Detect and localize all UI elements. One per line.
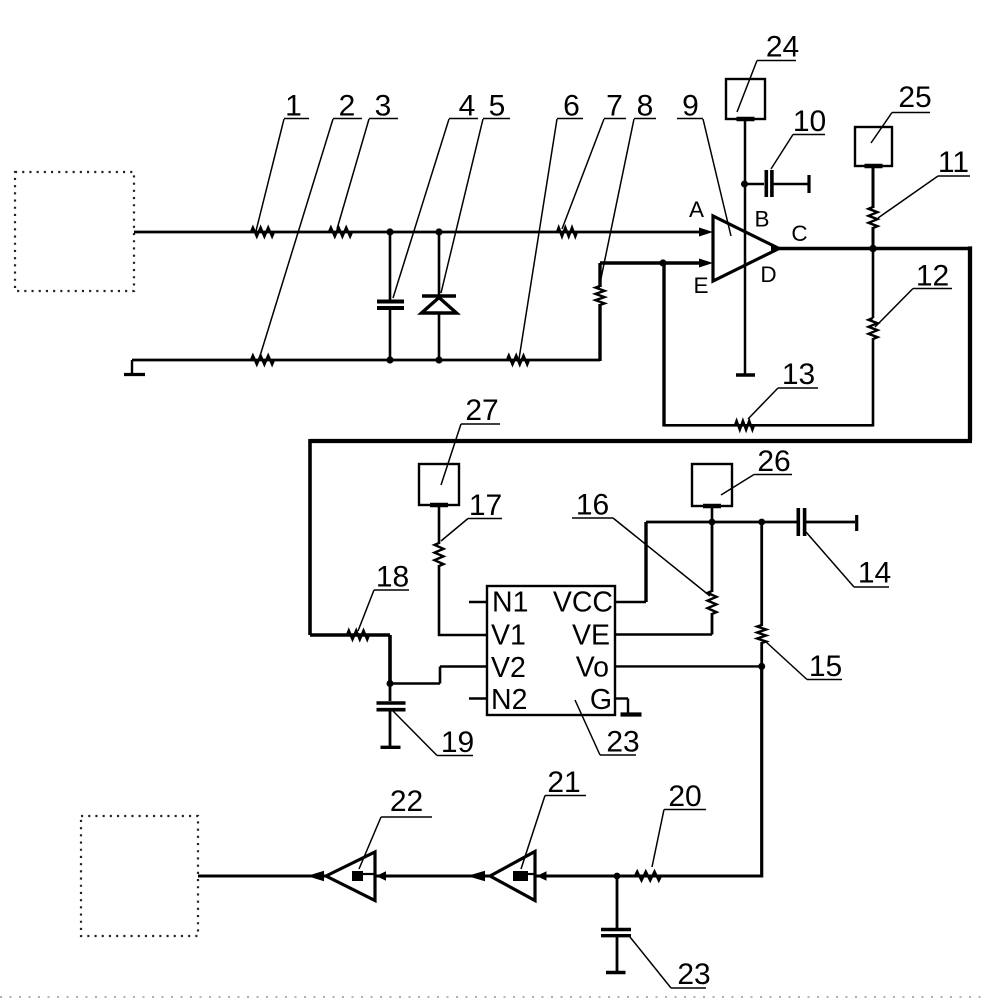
svg-text:21: 21 (547, 766, 580, 799)
svg-text:G: G (590, 684, 612, 716)
svg-text:7: 7 (606, 90, 623, 123)
svg-text:25: 25 (898, 81, 931, 114)
svg-text:V1: V1 (491, 620, 526, 652)
svg-text:N2: N2 (491, 684, 527, 716)
svg-text:N1: N1 (492, 587, 528, 619)
svg-text:10: 10 (793, 105, 826, 138)
svg-text:A: A (689, 197, 704, 222)
svg-text:9: 9 (682, 90, 699, 123)
svg-text:17: 17 (469, 489, 502, 522)
svg-text:Vo: Vo (576, 652, 609, 684)
svg-text:VCC: VCC (553, 587, 613, 619)
svg-text:19: 19 (441, 726, 474, 759)
svg-text:D: D (760, 262, 776, 287)
svg-text:23: 23 (677, 958, 710, 991)
svg-text:18: 18 (376, 561, 409, 594)
svg-text:27: 27 (465, 394, 498, 427)
svg-text:16: 16 (576, 489, 609, 522)
svg-text:26: 26 (757, 445, 790, 478)
svg-text:11: 11 (938, 146, 969, 179)
svg-text:5: 5 (489, 90, 506, 123)
svg-text:14: 14 (858, 557, 891, 590)
svg-text:V2: V2 (491, 652, 526, 684)
svg-text:C: C (791, 221, 807, 246)
svg-text:4: 4 (459, 90, 476, 123)
svg-text:22: 22 (390, 785, 423, 818)
svg-text:B: B (754, 207, 769, 232)
svg-text:2: 2 (339, 90, 356, 123)
svg-text:E: E (693, 273, 708, 298)
svg-text:6: 6 (563, 90, 580, 123)
svg-text:23: 23 (606, 726, 639, 759)
svg-text:8: 8 (637, 90, 654, 123)
svg-text:13: 13 (782, 358, 815, 391)
svg-text:VE: VE (572, 620, 610, 652)
svg-text:24: 24 (766, 31, 799, 64)
svg-text:3: 3 (375, 90, 392, 123)
svg-text:20: 20 (668, 780, 701, 813)
svg-text:1: 1 (285, 90, 302, 123)
svg-text:15: 15 (809, 650, 842, 683)
svg-text:12: 12 (916, 260, 949, 293)
